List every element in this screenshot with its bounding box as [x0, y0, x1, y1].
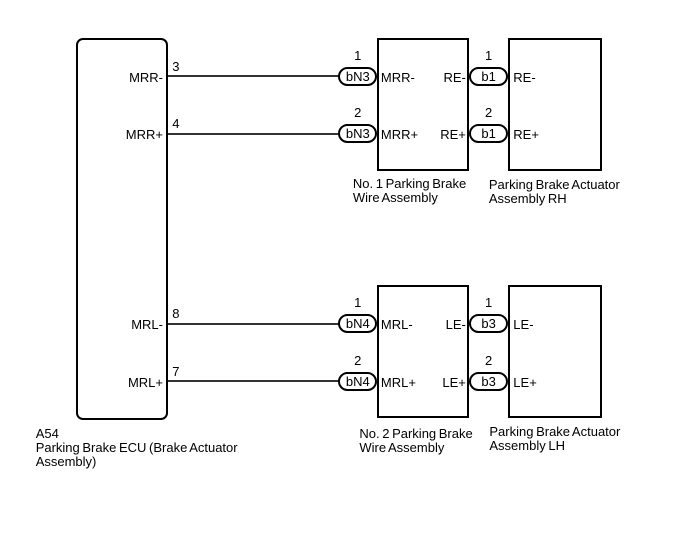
caption ECU line1 A54	[36, 427, 59, 440]
pin number 8	[172, 307, 179, 320]
label LE+ in No.2 box	[406, 376, 466, 389]
connector bN4 pin 1 number	[348, 296, 368, 309]
label MRR+ in No.1 box	[381, 128, 418, 141]
caption ECU line3	[36, 455, 97, 468]
caption actuator RH line2	[489, 192, 567, 205]
caption No.2 wire assembly line2	[359, 441, 444, 454]
connector b3 pin 2 number	[479, 354, 499, 367]
connector b1 pin 1 number	[479, 49, 499, 62]
label RE- in RH box	[513, 71, 535, 84]
label LE- in LH box	[513, 318, 533, 331]
caption ECU line2	[36, 441, 238, 454]
connector bN4 pin 2 number	[348, 354, 368, 367]
caption No.1 wire assembly line1	[353, 177, 466, 190]
wire MRR- (pin 3 to bN3)	[168, 75, 339, 77]
connector bN3 pin 1 oval	[338, 67, 377, 86]
connector b3 pin 1 number	[479, 296, 499, 309]
label MRL- in No.2 box	[381, 318, 413, 331]
connector b3 pin 2 oval	[469, 372, 508, 391]
caption No.2 wire assembly line1	[359, 427, 472, 440]
connector b1 pin 1 oval	[469, 67, 508, 86]
label RE- in No.1 box	[406, 71, 466, 84]
connector b1 pin 2 number	[479, 106, 499, 119]
label MRR- in No.1 box	[381, 71, 415, 84]
label LE+ in LH box	[513, 376, 537, 389]
pin label MRR-	[103, 71, 163, 84]
caption No.1 wire assembly line2	[353, 191, 438, 204]
caption actuator LH line1	[489, 425, 620, 438]
pin number 4	[172, 117, 179, 130]
caption actuator LH line2	[489, 439, 565, 452]
wire MRL+ (pin 7 to bN4)	[168, 380, 339, 382]
connector b3 pin 1 oval	[469, 314, 508, 333]
No.1 wire assembly box	[377, 38, 469, 171]
wire MRR+ (pin 4 to bN3)	[168, 133, 339, 135]
connector bN4 pin 1 oval	[338, 314, 377, 333]
caption actuator RH line1	[489, 178, 620, 191]
connector bN3 pin 2 oval	[338, 124, 377, 143]
pin number 3	[172, 60, 179, 73]
pin label MRL+	[103, 376, 163, 389]
connector b1 pin 2 oval	[469, 124, 508, 143]
label MRL+ in No.2 box	[381, 376, 416, 389]
No.2 wire assembly box	[377, 285, 469, 418]
pin label MRL-	[103, 318, 163, 331]
connector bN3 pin 1 number	[348, 49, 368, 62]
connector bN3 pin 2 number	[348, 106, 368, 119]
label RE+ in No.1 box	[406, 128, 466, 141]
ECU A54 box (Parking Brake ECU)	[76, 38, 168, 420]
actuator LH box	[508, 285, 602, 418]
pin label MRR+	[103, 128, 163, 141]
label RE+ in RH box	[513, 128, 539, 141]
pin number 7	[172, 365, 179, 378]
label LE- in No.2 box	[406, 318, 466, 331]
connector bN4 pin 2 oval	[338, 372, 377, 391]
actuator RH box	[508, 38, 602, 171]
wire MRL- (pin 8 to bN4)	[168, 323, 339, 325]
